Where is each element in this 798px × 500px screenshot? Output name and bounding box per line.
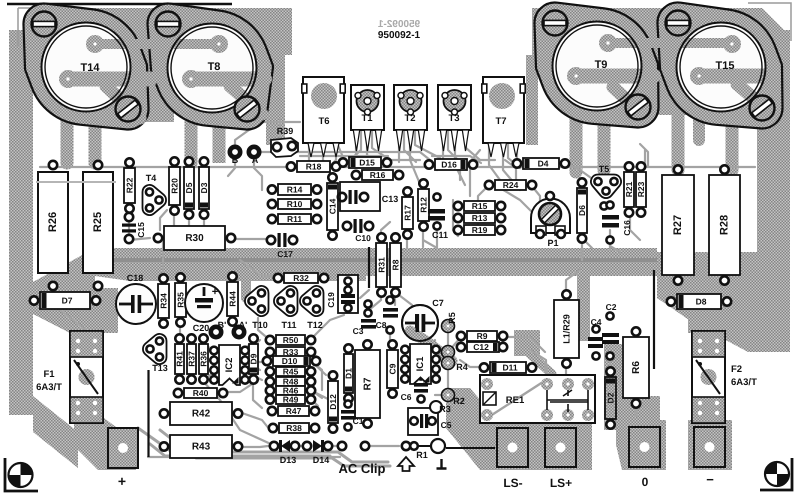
ground-plane pour strip right of T7 <box>526 55 538 145</box>
resistor R15 <box>454 201 505 211</box>
resistor R25 <box>83 161 113 290</box>
svg-text:T3: T3 <box>448 113 459 124</box>
transistor T9 (TO-3) <box>534 3 658 128</box>
solder jumper R39 <box>271 126 298 157</box>
wire trace from T15 emitter pad <box>692 69 772 84</box>
svg-text:D11: D11 <box>502 363 517 373</box>
terminal minus <box>694 427 725 487</box>
ground pour around terminal minus <box>688 420 732 470</box>
svg-text:R23: R23 <box>636 181 646 197</box>
wire trace from T14 emitter pad <box>61 72 158 87</box>
capacitor C18 (electrolytic) <box>116 273 156 324</box>
wire feed from blob down to fuse F2 <box>688 314 733 333</box>
wire trace from T9 emitter pad <box>569 69 661 84</box>
svg-text:950092-1: 950092-1 <box>377 19 420 30</box>
resistor R17 <box>402 187 413 238</box>
svg-text:A': A' <box>239 320 248 330</box>
capacitor C12 <box>457 342 507 352</box>
resistor R16 <box>352 170 403 180</box>
wire thin trace across R26/R25 tops <box>36 181 116 183</box>
svg-text:C17: C17 <box>277 249 293 259</box>
svg-text:+: + <box>118 473 126 489</box>
registration fiducial bottom-left <box>5 458 38 491</box>
svg-text:F1: F1 <box>43 369 55 380</box>
resistor R8 <box>390 233 401 296</box>
diode D12 <box>328 371 338 432</box>
pour branch from rail to C18 / F1 top <box>33 288 118 333</box>
capacitor C15 <box>122 213 146 243</box>
svg-text:T13: T13 <box>152 363 168 373</box>
svg-text:C12: C12 <box>473 342 489 352</box>
svg-text:R36: R36 <box>199 351 209 367</box>
mounting screw of T9 bottom-right <box>626 95 651 120</box>
svg-text:C13: C13 <box>382 194 399 204</box>
resistor R32 <box>274 273 328 283</box>
wire column between C2 and R6 <box>604 344 622 430</box>
test point R5 <box>442 312 458 358</box>
capacitor C13 <box>338 190 368 204</box>
node A' <box>234 320 248 337</box>
resistor R38 <box>269 423 319 433</box>
svg-text:C7: C7 <box>432 298 444 308</box>
potentiometer P1 <box>531 192 570 248</box>
svg-text:C18: C18 <box>127 273 144 283</box>
wire trace from T8 emitter pad <box>184 72 272 87</box>
wire column from band down to T10/T11 area <box>241 274 251 298</box>
wire wide verticals under T9/T15 to R27/R28 <box>570 106 583 172</box>
test point R3 <box>430 401 451 414</box>
wire strip from band down to C4 <box>577 266 590 341</box>
svg-text:T14: T14 <box>81 62 101 74</box>
capacitor C11 <box>428 193 448 240</box>
svg-text:R31: R31 <box>377 257 387 273</box>
svg-text:R17: R17 <box>403 205 413 221</box>
node B <box>230 147 240 165</box>
wire thin signal traces <box>40 90 755 457</box>
capacitor C17 <box>267 233 297 259</box>
capacitor C5 <box>408 408 452 435</box>
resistor R19 <box>454 225 505 235</box>
svg-text:D9: D9 <box>249 353 259 364</box>
ground-plane pour top-right around T9/T15 <box>532 8 790 55</box>
svg-text:R6: R6 <box>631 361 642 374</box>
diode D8 <box>667 294 731 309</box>
ground pour around terminal 0 <box>616 420 666 470</box>
svg-text:T12: T12 <box>307 320 323 330</box>
svg-text:T4: T4 <box>146 173 157 183</box>
svg-text:C14: C14 <box>328 198 338 214</box>
capacitor C16 <box>600 201 632 243</box>
ground symbol <box>437 459 447 469</box>
svg-text:D4: D4 <box>538 159 549 169</box>
resistor R43 <box>160 435 242 458</box>
svg-text:D13: D13 <box>280 455 297 465</box>
wire horizontal mid-board power band <box>95 248 657 276</box>
svg-text:C19: C19 <box>326 292 336 308</box>
svg-text:R34: R34 <box>159 293 169 309</box>
svg-text:R50: R50 <box>283 335 299 345</box>
ground pour wedge between T9 and T15 flanges <box>646 20 688 115</box>
svg-text:AC Clip: AC Clip <box>339 461 386 476</box>
op-amp IC2 <box>210 345 249 385</box>
capacitor C2 <box>602 302 619 360</box>
wire black link bottom-left <box>147 370 149 457</box>
node B' <box>211 320 227 337</box>
mounting screw of T14 bottom-right <box>116 97 141 122</box>
capacitor C20 (electrolytic) <box>185 284 223 333</box>
transistor T15 (TO-3) <box>657 2 782 128</box>
svg-text:P1: P1 <box>547 238 558 248</box>
relay RE1 <box>480 375 595 423</box>
svg-text:D12: D12 <box>328 394 338 410</box>
diode D14 <box>303 440 332 465</box>
svg-text:R11: R11 <box>287 214 302 224</box>
diode D1 <box>344 344 354 402</box>
svg-text:R20: R20 <box>170 178 180 194</box>
mounting screw of T14 top-left <box>32 12 57 37</box>
svg-text:R45: R45 <box>283 367 299 377</box>
wire trace between T14 and T8 base pads <box>95 39 219 49</box>
wire mid band lower lip left half <box>95 276 366 281</box>
svg-text:A: A <box>252 155 259 165</box>
svg-text:+: + <box>212 286 218 298</box>
svg-text:R47: R47 <box>286 406 302 416</box>
svg-text:R2: R2 <box>453 396 465 406</box>
diode D4 <box>513 158 569 169</box>
svg-text:L1/R29: L1/R29 <box>562 314 572 344</box>
svg-text:R1: R1 <box>416 450 428 460</box>
resistor R40 <box>174 388 227 398</box>
wire grey feed C12 blob to relay <box>530 354 552 374</box>
resistor R48 <box>266 377 315 387</box>
transistor T7 (TO-220) <box>482 77 525 157</box>
resistor R12 <box>418 179 429 230</box>
fuse F2 <box>692 331 757 423</box>
fuse F1 <box>36 331 103 423</box>
wire under R6 to 0 terminal <box>618 396 660 430</box>
resistor L1/R29 <box>554 290 579 367</box>
ground pour right-mid staircase blob <box>657 262 790 352</box>
diode D10 <box>263 356 320 366</box>
ground pour bottom centre-right around LS terminals <box>446 388 592 470</box>
svg-text:C11: C11 <box>432 230 448 240</box>
resistor R22 <box>124 158 135 212</box>
left rail lower diagonal to fuse F1 <box>33 396 78 468</box>
board corner line top-right <box>748 3 791 41</box>
registration fiducial bottom-right <box>760 458 792 490</box>
svg-text:D16: D16 <box>441 160 457 170</box>
resistor R34 <box>158 274 169 327</box>
svg-text:6A3/T: 6A3/T <box>731 377 757 388</box>
capacitor C13 box <box>340 182 398 211</box>
terminal plus <box>108 428 138 489</box>
mounting screw of T15 bottom-right <box>750 96 775 121</box>
svg-text:IC1: IC1 <box>415 356 426 372</box>
svg-text:T7: T7 <box>495 116 506 127</box>
svg-text:D5: D5 <box>184 182 194 193</box>
svg-text:R7: R7 <box>363 377 374 390</box>
transistor T10 <box>245 286 269 316</box>
svg-text:R39: R39 <box>277 126 294 136</box>
resistor R49 <box>266 395 315 405</box>
svg-text:R38: R38 <box>286 423 302 433</box>
resistor R36 <box>199 334 209 383</box>
diode D16 <box>425 159 477 170</box>
svg-text:T2: T2 <box>404 113 415 124</box>
resistor R1 vertical-mount <box>410 439 445 460</box>
capacitor C4 <box>588 317 603 360</box>
resistor R6 <box>623 327 649 407</box>
wire mid band thin extension to right blob <box>650 252 778 262</box>
resistor R35 <box>175 273 186 326</box>
transistor T13 <box>143 334 167 364</box>
resistor R47 <box>268 406 319 416</box>
svg-text:R37: R37 <box>187 351 197 367</box>
svg-text:R41: R41 <box>175 351 185 367</box>
svg-text:B': B' <box>218 320 227 330</box>
resistor R41 <box>175 334 185 383</box>
svg-text:C15: C15 <box>136 222 146 238</box>
transistor T3 <box>438 85 471 151</box>
svg-text:D6: D6 <box>577 205 587 216</box>
svg-text:R35: R35 <box>176 292 186 308</box>
input arrow symbol <box>398 457 414 471</box>
wire diagonal inside T8 can <box>230 86 262 114</box>
wire wide vertical under T14 left pad <box>61 112 74 163</box>
wire wide verticals under T8 <box>185 112 198 163</box>
diode D6 <box>577 178 587 242</box>
svg-text:C9: C9 <box>388 363 398 374</box>
wire bottom-left traces under D13/D14 row <box>138 428 388 462</box>
test point R4 <box>442 357 468 373</box>
svg-text:0: 0 <box>642 475 649 489</box>
svg-text:T5: T5 <box>599 164 610 174</box>
svg-text:R8: R8 <box>391 259 401 270</box>
resistor R11 <box>268 214 321 224</box>
svg-text:R26: R26 <box>47 212 59 232</box>
svg-text:R42: R42 <box>192 409 211 420</box>
capacitor C1 <box>341 400 364 430</box>
capacitor C19 <box>326 275 358 313</box>
transistor T8 can and pads <box>168 24 257 113</box>
svg-text:T11: T11 <box>281 320 296 330</box>
transistor T1 <box>351 85 384 151</box>
svg-text:C16: C16 <box>622 220 632 236</box>
svg-text:T15: T15 <box>716 60 735 72</box>
svg-text:T8: T8 <box>208 61 221 73</box>
resistor R13 <box>454 213 505 223</box>
svg-text:D3: D3 <box>199 182 209 193</box>
wire diagonal from left rail into mid band <box>33 248 95 310</box>
capacitor C7 (electrolytic) <box>402 298 444 341</box>
transistor T12 <box>300 286 324 316</box>
ground pour wedge between T14 and T8 flanges <box>138 20 174 122</box>
terminal LS- <box>497 428 528 490</box>
wire diagonal inside T14 can <box>106 86 140 118</box>
wire trace between T9 and T15 base pads <box>608 38 732 48</box>
diode D5 <box>184 157 194 218</box>
resistor R20 <box>169 157 180 214</box>
resistor R33 <box>266 347 315 357</box>
svg-text:D1: D1 <box>344 368 354 379</box>
diode D3 <box>199 157 209 218</box>
diode D7 <box>30 292 100 309</box>
svg-text:R30: R30 <box>185 233 204 244</box>
mounting screw of T8 bottom-right <box>235 97 260 122</box>
transistor T11 <box>274 286 298 316</box>
svg-text:R12: R12 <box>419 197 429 213</box>
svg-text:R24: R24 <box>503 180 519 190</box>
svg-text:950092-1: 950092-1 <box>378 30 421 41</box>
resistor R7 <box>355 340 380 427</box>
diode D2 <box>605 367 616 428</box>
wire black link C19 to band <box>368 247 370 288</box>
svg-text:R4: R4 <box>456 362 468 372</box>
capacitor C9 <box>387 340 398 397</box>
svg-text:R15: R15 <box>472 201 488 211</box>
svg-text:IC2: IC2 <box>224 358 235 373</box>
svg-text:R25: R25 <box>92 212 104 232</box>
svg-text:R10: R10 <box>287 199 303 209</box>
wire wide vertical under T14 right pad <box>89 112 102 163</box>
diode D11 <box>480 362 536 373</box>
right edge supply rail <box>757 30 790 332</box>
resistor R26 <box>38 161 68 290</box>
svg-text:LS-: LS- <box>503 476 522 490</box>
terminal LS+ <box>545 428 576 490</box>
resistor R50 <box>266 335 315 345</box>
wire diagonal inside T9 can <box>613 87 641 113</box>
svg-text:R44: R44 <box>228 291 238 307</box>
wire black link R1 to LS- pour <box>446 447 495 449</box>
op-amp IC1 <box>401 344 440 384</box>
svg-text:C8: C8 <box>376 320 387 330</box>
transistor T8 (TO-3) <box>148 4 273 130</box>
svg-text:R49: R49 <box>283 395 299 405</box>
svg-text:R22: R22 <box>125 177 135 193</box>
wire grey trace through C7 <box>410 331 452 361</box>
resistor R21 <box>624 162 634 216</box>
svg-text:R5: R5 <box>447 312 457 324</box>
resistor R42 <box>160 402 242 425</box>
svg-text:LS+: LS+ <box>550 476 572 490</box>
resistor R30 <box>154 226 235 250</box>
transistor T5 <box>591 174 621 198</box>
svg-text:T1: T1 <box>361 113 373 124</box>
resistor R10 <box>268 199 321 209</box>
board corner line top-left <box>7 3 232 6</box>
svg-text:−: − <box>706 472 714 487</box>
svg-text:C20: C20 <box>193 323 210 333</box>
svg-text:C3: C3 <box>353 326 364 336</box>
svg-text:R43: R43 <box>192 442 211 453</box>
svg-text:R13: R13 <box>472 213 488 223</box>
wire black link right of R6 <box>653 270 655 369</box>
diode D9 <box>249 334 259 383</box>
svg-text:F2: F2 <box>731 364 742 375</box>
capacitor C8 <box>376 296 398 333</box>
svg-text:R14: R14 <box>287 185 303 195</box>
resistor R18 <box>287 161 340 172</box>
svg-text:R40: R40 <box>193 388 209 398</box>
resistor R44 <box>227 272 238 325</box>
mounting screw of T9 top-left <box>543 11 568 36</box>
svg-text:D2: D2 <box>606 392 616 403</box>
svg-text:D15: D15 <box>359 158 375 168</box>
svg-text:C5: C5 <box>441 420 452 430</box>
resistor R28 <box>709 165 740 284</box>
transistor T9 can and pads <box>553 22 642 111</box>
svg-text:C6: C6 <box>401 392 412 402</box>
terminal zero <box>629 427 660 489</box>
test point R2 <box>442 389 465 407</box>
svg-text:T9: T9 <box>595 59 608 71</box>
svg-text:R18: R18 <box>306 162 322 172</box>
svg-text:R27: R27 <box>672 215 684 235</box>
svg-text:R32: R32 <box>293 273 309 283</box>
resistor R37 <box>187 334 197 383</box>
resistor R27 <box>662 165 694 284</box>
svg-text:R9: R9 <box>477 331 488 341</box>
svg-text:T6: T6 <box>318 116 329 127</box>
resistor R45 <box>266 367 315 377</box>
resistor R9 <box>457 331 507 341</box>
diode D13 <box>270 440 299 465</box>
svg-text:6A3/T: 6A3/T <box>36 382 62 393</box>
left edge supply rail <box>9 30 33 415</box>
capacitor C3 <box>353 300 376 336</box>
svg-text:R16: R16 <box>370 170 386 180</box>
transistor T4 <box>142 185 166 215</box>
svg-text:R3: R3 <box>439 404 451 414</box>
transistor T14 can and pads <box>42 23 131 112</box>
svg-text:D14: D14 <box>313 455 330 465</box>
svg-text:C10: C10 <box>355 233 371 243</box>
transistor T15 can and pads <box>677 23 766 112</box>
svg-text:R21: R21 <box>624 181 634 197</box>
wire diagonal inside T15 can <box>737 84 759 103</box>
resistor R14 <box>268 184 321 195</box>
svg-text:R19: R19 <box>472 225 488 235</box>
svg-text:R28: R28 <box>719 215 731 235</box>
node pads bottom row <box>338 442 410 450</box>
resistor R24 <box>485 180 536 190</box>
svg-text:D7: D7 <box>62 296 73 306</box>
svg-text:T10: T10 <box>252 320 268 330</box>
svg-text:D10: D10 <box>282 356 298 366</box>
ground-plane pour strip left of T6 <box>266 50 285 145</box>
capacitor C14 <box>327 173 338 239</box>
capacitor C6 <box>401 372 428 402</box>
svg-text:RE1: RE1 <box>506 395 525 406</box>
resistor R46 <box>266 386 315 396</box>
node A <box>249 147 259 165</box>
mounting screw of T8 top-left <box>156 12 181 37</box>
transistor T2 <box>394 85 427 151</box>
diode D15 <box>339 157 391 168</box>
svg-text:C4: C4 <box>591 317 602 327</box>
wire fuse F1 bottom to + terminal <box>74 418 136 470</box>
resistor R23 <box>636 162 646 216</box>
svg-text:C1: C1 <box>353 416 364 426</box>
svg-text:B: B <box>232 155 239 165</box>
mounting screw of T15 top-left <box>666 11 691 36</box>
svg-text:D8: D8 <box>696 297 707 307</box>
transistor T14 (TO-3) <box>23 4 148 130</box>
ground-plane pour top-left around T14/T8 <box>50 8 292 55</box>
resistor R31 <box>376 233 387 296</box>
transistor T6 (TO-220) <box>302 77 345 157</box>
